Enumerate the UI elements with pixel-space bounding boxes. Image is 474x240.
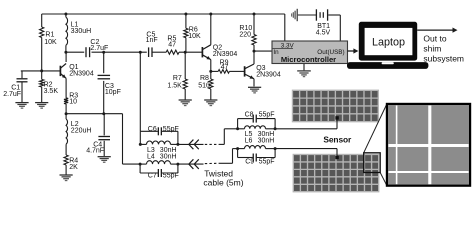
svg-text:220uH: 220uH <box>71 128 92 135</box>
svg-text:2.7uF: 2.7uF <box>3 91 21 98</box>
svg-text:2.7uF: 2.7uF <box>90 45 108 52</box>
svg-text:C6: C6 <box>148 126 157 133</box>
svg-text:30nH: 30nH <box>258 138 275 145</box>
svg-text:55pF: 55pF <box>259 158 275 165</box>
svg-text:R8: R8 <box>200 75 209 82</box>
svg-text:10K: 10K <box>44 39 57 46</box>
svg-text:4.5V: 4.5V <box>316 30 331 37</box>
svg-text:3.3V: 3.3V <box>281 42 295 49</box>
svg-text:10K: 10K <box>188 33 201 40</box>
svg-text:shim: shim <box>423 44 441 54</box>
svg-text:C8: C8 <box>245 111 254 118</box>
svg-text:R7: R7 <box>173 75 182 82</box>
svg-text:55pF: 55pF <box>163 126 179 133</box>
svg-text:2N3904: 2N3904 <box>213 51 238 58</box>
svg-text:C7: C7 <box>148 172 157 179</box>
svg-text:1.5K: 1.5K <box>167 82 182 89</box>
svg-text:L4: L4 <box>147 154 155 161</box>
svg-text:Sensor: Sensor <box>323 135 352 145</box>
svg-text:R1: R1 <box>45 32 54 39</box>
svg-text:330uH: 330uH <box>71 28 92 35</box>
svg-text:55pF: 55pF <box>259 111 275 118</box>
svg-text:Laptop: Laptop <box>372 37 405 49</box>
svg-text:4.7nF: 4.7nF <box>86 147 104 154</box>
svg-text:In: In <box>273 49 279 56</box>
svg-text:Out to: Out to <box>423 33 446 43</box>
svg-text:2N3904: 2N3904 <box>69 70 94 77</box>
svg-text:subsystem: subsystem <box>423 54 464 64</box>
svg-text:2N3904: 2N3904 <box>256 71 281 78</box>
svg-text:2K: 2K <box>69 164 78 171</box>
svg-text:L6: L6 <box>245 138 253 145</box>
svg-text:1nF: 1nF <box>146 37 158 44</box>
svg-text:10: 10 <box>69 99 77 106</box>
svg-text:3.5K: 3.5K <box>44 88 59 95</box>
svg-text:Microcontroller: Microcontroller <box>281 55 336 64</box>
svg-text:55pF: 55pF <box>163 172 179 179</box>
svg-text:47: 47 <box>168 41 176 48</box>
svg-text:220: 220 <box>239 32 251 39</box>
svg-text:47: 47 <box>221 64 229 71</box>
svg-text:C9: C9 <box>245 158 254 165</box>
svg-text:10pF: 10pF <box>105 89 121 96</box>
svg-text:510: 510 <box>198 82 210 89</box>
svg-text:cable (5m): cable (5m) <box>203 178 243 188</box>
svg-text:30nH: 30nH <box>160 154 177 161</box>
